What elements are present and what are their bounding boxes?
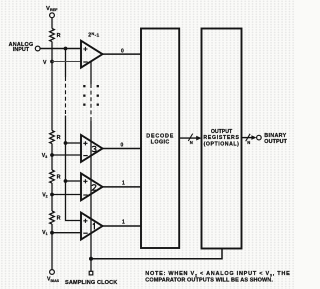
wire analog bus solid upper: [65, 49, 67, 78]
svg-text:R: R: [57, 216, 61, 222]
wire analog bus dashed: [65, 77, 67, 116]
wire V2 tap to comp2 -: [52, 194, 81, 196]
svg-text:0: 0: [121, 142, 124, 148]
label 3: [92, 146, 96, 151]
label 1: [93, 223, 95, 229]
svg-text:1: 1: [122, 219, 125, 225]
arrowhead decode to registers: [196, 136, 201, 141]
resistor R (top): [50, 29, 55, 42]
svg-text:COMPARATOR OUTPUTS WILL BE AS: COMPARATOR OUTPUTS WILL BE AS SHOWN.: [145, 278, 273, 284]
wire output comp1 to decode: [103, 225, 142, 227]
node V3 tap: [50, 153, 54, 157]
svg-text:DECODE: DECODE: [146, 133, 174, 139]
wire output comp2 to decode: [103, 186, 142, 188]
svg-text:R: R: [57, 135, 61, 141]
wire ladder V2 region: [51, 183, 53, 211]
wire sampling clock vertical lower: [90, 121, 92, 271]
node bus tap comp3: [64, 141, 68, 145]
wire bus registers to output terminal: [242, 137, 255, 139]
wire ladder V1 to bottom terminal: [51, 224, 53, 270]
terminal VREF: [50, 13, 55, 18]
wire bus tap to comp3 +: [66, 142, 82, 144]
svg-text:N: N: [190, 140, 193, 145]
node sampling clock junction: [89, 257, 93, 261]
resistor R (V3-V2): [50, 170, 55, 183]
svg-text:REGISTERS: REGISTERS: [203, 135, 239, 141]
label - comparator 3: [83, 155, 87, 157]
node bus tap comp2: [64, 179, 68, 183]
svg-text:NOTE: WHEN V2 < ANALOG INPUT <: NOTE: WHEN V2 < ANALOG INPUT < V3, THE: [145, 271, 290, 277]
node V1 tap: [50, 231, 54, 235]
terminal binary output: [257, 135, 262, 140]
op-amp comparator 3: [81, 135, 103, 162]
terminal VBIAS bottom: [50, 270, 55, 275]
ellipsis dots continuation: [83, 85, 99, 106]
label - comparator 2: [83, 194, 87, 196]
arrowhead registers to output: [251, 135, 256, 140]
wire bus tap to comp2 +: [66, 180, 82, 182]
label + comparator 2: [83, 179, 87, 183]
wire ladder VREF-R to tap V2^N-1: [51, 42, 53, 131]
label + comparator 1: [83, 219, 87, 223]
svg-text:V1: V1: [42, 230, 47, 236]
svg-text:(OPTIONAL): (OPTIONAL): [204, 142, 240, 148]
svg-text:0: 0: [121, 49, 124, 55]
wire ladder top segment: [51, 18, 53, 29]
wire V3 tap to comp3 -: [52, 154, 81, 156]
wire sampling clock vertical dashed: [90, 84, 92, 121]
svg-text:V2: V2: [42, 192, 47, 198]
wire analog input to comparator +: [40, 48, 81, 50]
svg-text:V3: V3: [42, 153, 47, 159]
wire bus decode to registers: [179, 137, 199, 139]
node analog input junction: [64, 47, 68, 51]
label - comparator top: [83, 61, 87, 63]
svg-text:LOGIC: LOGIC: [151, 140, 170, 146]
wire output comp3 to decode: [103, 147, 142, 149]
wire sampling clock vertical solid upper: [90, 62, 92, 85]
svg-text:V: V: [43, 60, 47, 66]
svg-text:VBIAS: VBIAS: [47, 277, 60, 283]
svg-text:1: 1: [122, 181, 125, 187]
wire V1 tap to comp1 -: [52, 232, 81, 234]
svg-text:INPUT: INPUT: [13, 47, 30, 53]
label - comparator 1: [83, 232, 87, 234]
wire analog bus lower: [66, 116, 82, 221]
svg-text:R: R: [57, 175, 61, 181]
node V2^N-1 tap: [50, 60, 54, 64]
terminal ANALOG INPUT: [35, 46, 40, 51]
wire ladder R-V3: [51, 144, 53, 171]
op-amp comparator 1: [81, 213, 103, 240]
terminal sampling clock: [89, 271, 93, 275]
svg-text:OUTPUT: OUTPUT: [264, 139, 287, 145]
slash N bus mark 1: [188, 134, 192, 141]
wire tap V2^N-1 to comparator -: [52, 61, 81, 63]
wire output comp 2^N-1 to decode: [103, 53, 142, 55]
node V2 tap: [50, 193, 54, 197]
op-amp comparator 2: [81, 173, 103, 200]
svg-text:VREF: VREF: [46, 6, 58, 12]
svg-text:2N-1: 2N-1: [88, 31, 99, 39]
label + comparator 3: [83, 141, 87, 145]
resistor R (above V3 tap): [50, 131, 55, 144]
op-amp comparator 2^N-1 (top): [81, 41, 103, 68]
resistor R (V2-V1): [50, 211, 55, 224]
svg-text:OUTPUT: OUTPUT: [211, 129, 233, 135]
svg-text:N: N: [247, 140, 250, 145]
slash N bus mark 2: [246, 134, 250, 141]
label 2: [92, 185, 96, 191]
svg-text:R: R: [57, 33, 61, 39]
wire sampling clock branch to registers: [91, 249, 222, 259]
block decode logic: [141, 29, 179, 249]
label + comparator top: [83, 47, 87, 51]
svg-text:SAMPLING CLOCK: SAMPLING CLOCK: [65, 280, 117, 286]
block output registers: [202, 29, 242, 249]
